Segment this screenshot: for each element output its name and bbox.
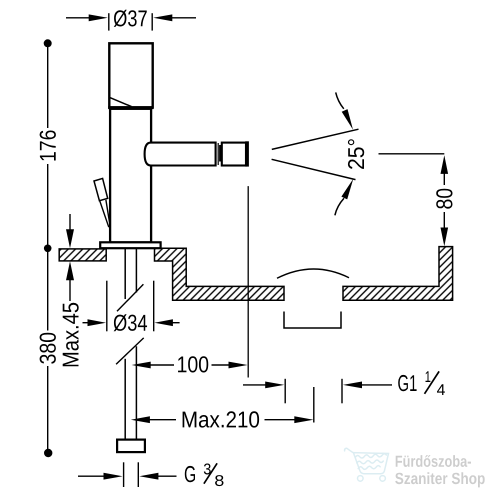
text sup1 [426,371,431,382]
drain bracket [284,312,341,329]
text logo1 [396,455,471,467]
text O37 [114,10,147,27]
faucet body [110,109,151,243]
lever knob [94,178,108,200]
faucet handle top cylinder [109,43,152,107]
dim Ø34 [106,281,108,332]
text 100 [178,356,208,372]
text 176 [40,130,56,160]
text Max45 [63,303,79,367]
dim G3/8 [78,475,104,477]
body top thick line [108,106,153,109]
aerator end cap [245,141,249,166]
text 25deg [348,139,364,169]
base plate [100,242,160,248]
bottom nut G3/8 [117,440,145,453]
spout centerline [247,186,249,377]
dim 380 [47,252,49,331]
text sub4 [437,384,445,395]
dim Ø37 [66,17,90,19]
pipe break slash 1 [117,284,143,311]
25 deg cone upper line [272,129,359,149]
lever stem [100,201,109,227]
25 deg cone lower line [272,159,356,179]
dim 80 [379,153,445,155]
sink right band [343,247,453,301]
25 deg bottom arc arrow [335,198,344,215]
drain dome arc [277,269,349,278]
text 380 [40,333,56,364]
G3/8 fraction slash [204,463,217,483]
supply pipe lines [124,248,126,299]
dim 100 [132,362,151,369]
spout joint ring [217,143,219,165]
countertop left strip [59,249,106,261]
spout tube [145,143,216,166]
logo cart [345,448,389,481]
text O34 [114,314,147,331]
text Max210 [183,411,259,427]
text sup3 [204,464,211,475]
dim 176 [44,39,52,47]
dim G1 1/4 [243,384,267,386]
text sub8 [215,475,223,486]
dim Max.210 [131,416,150,423]
dim Max.45 [69,214,71,230]
text G1 [398,375,416,391]
25 deg top arc arrow [336,92,344,108]
sink left Z-band [155,248,285,300]
pipe break slash 2 [116,338,144,364]
text 80 [436,189,452,209]
aerator [222,143,246,166]
handle base diagonal cut [109,97,131,106]
text G [185,466,195,482]
text logo2 [395,472,485,487]
